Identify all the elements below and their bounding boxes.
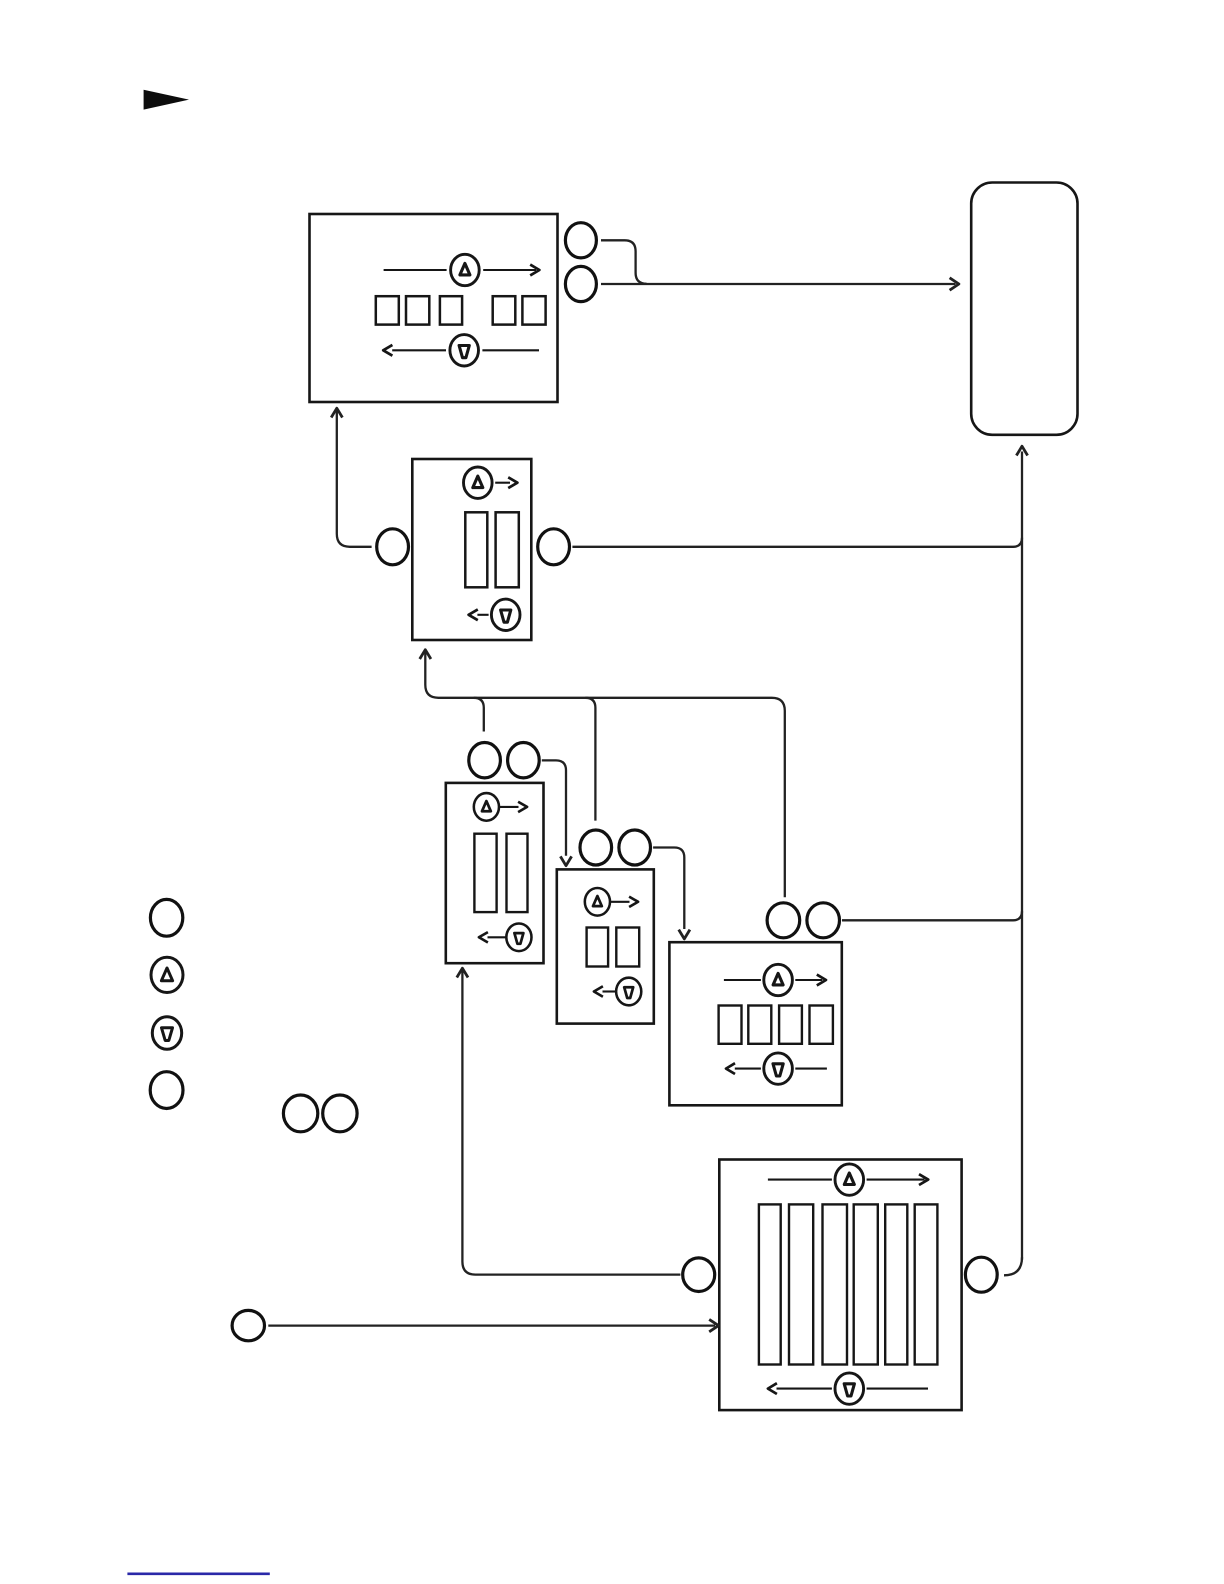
wire B1 bottom arrow down-elbow to P2a [331,408,371,547]
legend circled-down L3 [152,1017,181,1050]
B2 digit rectangles [465,512,519,587]
wire P2b to trunk (elbow up) [572,538,1022,547]
B1 down-arrow row [383,345,539,356]
box B4 (small 2-digit screen) [557,869,654,1023]
node circle P2a (left of B2) [377,529,409,565]
wire P6b elbow up to trunk [1004,1257,1022,1275]
B6 up-arrow row [768,1174,928,1185]
footer rule (blue) [127,1573,269,1576]
wire trunk up into D1, arrowhead [1016,446,1027,1260]
node circle S1 (start, far left) [232,1310,264,1340]
B5 down-arrow row [726,1063,827,1074]
wire P4b elbow down into B5 top, arrowhead [653,848,690,939]
node circle P6a (left of B6) [683,1258,715,1292]
B1 up-arrow row [384,265,540,276]
box B2 (2-digit screen) [412,459,531,640]
wire B3 bottom arrow from B6-left circle [457,968,681,1274]
B2 up-arrow row [495,477,517,488]
node circle P1a (beside B1) [565,223,596,258]
wire P1a elbow down to P1b line [601,240,647,283]
node circle P3a (above B3) [469,743,501,778]
B1 digit squares [376,296,546,324]
wire stub down to P3a [474,698,484,732]
B6 down-arrow row [768,1383,928,1394]
node circle P4b (above B4) [619,830,651,865]
node circle P6b (right of B6) [965,1257,997,1292]
box B5 (4-digit screen) [669,942,841,1105]
legend circle L1 [150,899,182,936]
B2 down-arrow row [469,609,489,620]
node circle P5b (above B5) [807,903,840,938]
box B3 (2-digit screen) [446,783,544,963]
legend circle pair L5 [283,1095,317,1132]
bullet triangle [144,90,189,110]
wire P5b to trunk (elbow up) [842,911,1022,920]
B6 digit rectangles [759,1204,938,1364]
B3 down-arrow row [479,932,506,942]
node circle P2b (right of B2) [538,529,570,565]
legend circle L4 [150,1072,183,1109]
wire stub down to P4a [585,698,595,821]
wire B2 bottom arrow, main manifold line [420,650,785,898]
B4 down-arrow row [594,986,616,996]
node circle P3b (above B3) [508,743,540,778]
wire S1 into B6 left edge, arrowhead [268,1319,718,1331]
node circle P4a (above B4) [580,830,612,865]
B4 digit squares [587,928,640,967]
box B1 (top menu screen) [310,214,558,402]
node circle P1b (beside B1) [565,266,596,301]
B4 up-arrow row [611,897,639,907]
node circle P5a (above B5) [767,903,800,938]
wire P3b elbow down into B4 top, arrowhead [542,760,572,865]
legend circled-up L2 [151,957,183,992]
display rounded box D1 [971,183,1077,435]
wire P1b to display box, arrowhead [601,278,959,290]
B5 up-arrow row [724,975,826,986]
B3 digit rectangles [474,834,527,912]
box B6 (6-digit screen) [719,1160,961,1411]
B5 digit rectangles [719,1006,833,1044]
B3 up-arrow row [500,802,527,812]
legend circle pair L6 [323,1095,357,1132]
